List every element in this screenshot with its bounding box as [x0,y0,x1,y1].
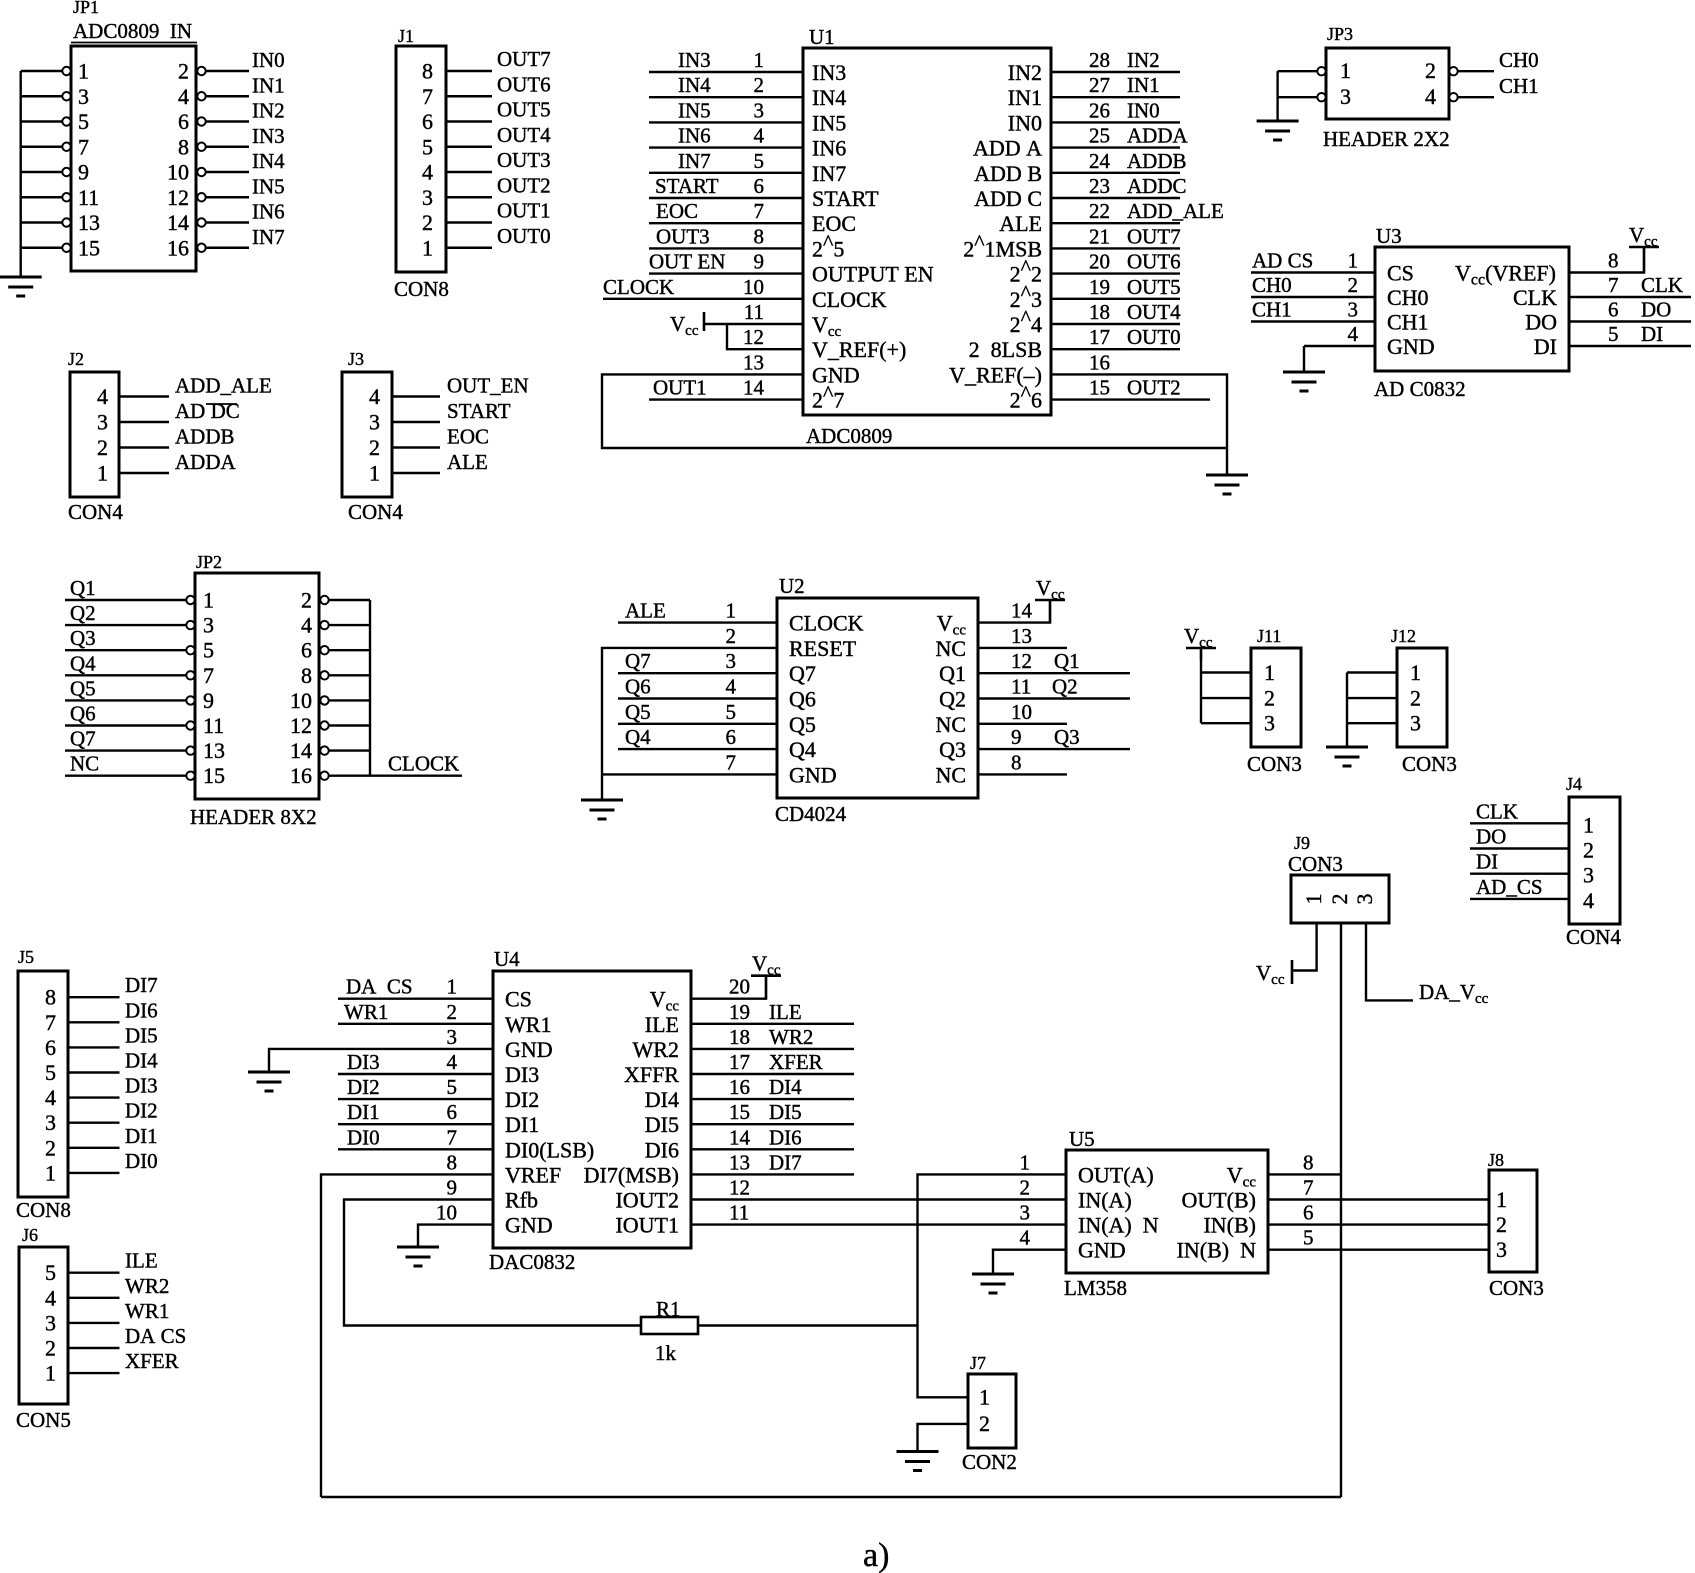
svg-text:IN(B) N: IN(B) N [1177,1238,1257,1263]
svg-text:2: 2 [45,1135,56,1160]
svg-text:NC: NC [935,762,966,787]
wire U2 pin 7 GND [602,773,777,775]
svg-text:7: 7 [1303,1176,1314,1200]
svg-text:J6: J6 [22,1225,38,1245]
svg-text:Q6: Q6 [789,687,816,712]
svg-text:Vcc: Vcc [1227,1162,1257,1190]
svg-text:7: 7 [447,1125,458,1149]
svg-text:2: 2 [178,59,189,84]
svg-text:Q1: Q1 [1054,649,1080,673]
ground U1 V_REF(-) [1206,475,1248,494]
wire U4 pin 6 (DI1) [338,1123,493,1125]
wire U1 pin 4 [649,146,803,148]
svg-text:2: 2 [369,435,380,460]
svg-text:2: 2 [1327,894,1352,905]
svg-text:IN6: IN6 [252,200,285,224]
svg-text:OUT_EN: OUT_EN [447,374,529,398]
svg-text:CON3: CON3 [1489,1276,1544,1300]
svg-text:1: 1 [45,1361,56,1386]
svg-text:Q3: Q3 [70,626,96,650]
svg-text:Rfb: Rfb [505,1188,538,1213]
svg-text:1: 1 [754,48,765,72]
svg-text:9: 9 [203,688,214,713]
JP3 pin circles [1317,67,1457,101]
connector JP1 body (HEADER 8X2) [71,46,196,271]
svg-text:ADC0809 IN: ADC0809 IN [73,19,192,43]
svg-text:7: 7 [726,750,737,774]
wire U4 pin 9 Rfb to R1 [344,1200,641,1326]
svg-text:IN4: IN4 [812,85,846,110]
svg-text:U2: U2 [779,574,805,598]
ground U4 pin 3 [248,1072,290,1091]
svg-text:XFER: XFER [125,1349,179,1373]
ground J7 [897,1452,939,1471]
svg-text:ADD C: ADD C [974,186,1042,211]
svg-text:IOUT1: IOUT1 [615,1213,679,1238]
wire U1 pin 18 [1051,323,1180,325]
svg-text:Q4: Q4 [789,737,816,762]
svg-text:18: 18 [1089,300,1110,324]
svg-text:17: 17 [1089,325,1110,349]
svg-text:J8: J8 [1488,1150,1504,1170]
svg-text:27: 27 [1089,73,1110,97]
wire U4 pin 14 (DI6) [691,1148,854,1150]
svg-text:OUT EN: OUT EN [649,250,725,274]
svg-text:3: 3 [1020,1201,1031,1225]
ground JP3 [1257,121,1299,140]
svg-text:2: 2 [979,1411,990,1436]
svg-text:AD CS: AD CS [1252,249,1313,273]
svg-text:J2: J2 [68,349,84,369]
svg-text:8: 8 [447,1150,458,1174]
wire U2 pin 12 (Q1) [978,672,1130,674]
svg-text:DI0: DI0 [347,1125,380,1149]
svg-text:ADDB: ADDB [175,425,235,449]
wire JP1 pin 10 (IN4) [206,171,249,173]
U1 right pin names [949,60,1042,413]
wire J1 pin 8 (OUT7) [446,70,492,72]
wire J5 pin 7 (DI6) [68,1021,120,1023]
IC U1 body (ADC0809) [803,48,1051,415]
wire U4 pin 12 IOUT2 to U5 pin 2 [691,1198,1066,1200]
svg-text:1: 1 [979,1385,990,1410]
svg-text:CH1: CH1 [1499,74,1539,98]
U3 right pin names [1455,261,1557,360]
svg-text:18: 18 [729,1025,750,1049]
connector J6 body (CON5) [19,1247,68,1404]
U4 right pin names [584,987,680,1238]
svg-text:10: 10 [743,275,764,299]
svg-text:3: 3 [1264,711,1275,736]
wire J5 pin 3 (DI2) [68,1121,120,1123]
svg-text:3: 3 [422,185,433,210]
svg-text:17: 17 [729,1050,750,1074]
svg-text:CS: CS [1387,261,1414,286]
svg-text:IN3: IN3 [252,124,285,148]
wire U3 pin 8 Vcc [1569,247,1644,273]
svg-text:ADDA: ADDA [175,450,236,474]
svg-text:Q7: Q7 [625,649,651,673]
svg-text:CLOCK: CLOCK [388,752,459,776]
svg-text:AD C0832: AD C0832 [1374,377,1466,401]
svg-text:4: 4 [422,160,433,185]
svg-text:7: 7 [203,663,214,688]
svg-text:ALE: ALE [447,450,488,474]
wire U1 pin 20 [1051,272,1180,274]
svg-text:J11: J11 [1257,626,1281,646]
connector J1 body (CON8) [396,46,446,272]
svg-text:6: 6 [422,109,433,134]
svg-text:WR1: WR1 [125,1299,169,1323]
svg-text:1: 1 [447,975,458,999]
svg-text:Q7: Q7 [789,661,816,686]
svg-text:6: 6 [178,109,189,134]
wire U1 pin 16 V_REF(-) to ground rail [1051,374,1227,475]
svg-text:NC: NC [935,712,966,737]
wire U1 pin 9 [649,272,803,274]
svg-text:CLOCK: CLOCK [603,275,674,299]
svg-text:1: 1 [78,59,89,84]
svg-text:DI0: DI0 [125,1149,158,1173]
svg-text:OUT4: OUT4 [497,123,551,147]
svg-text:CH1: CH1 [1387,310,1429,335]
IC U2 body (CD4024) [777,598,978,798]
svg-text:2: 2 [726,624,737,648]
wire U3 pin 2 (CH0) [1251,296,1375,298]
svg-text:DI1: DI1 [125,1124,158,1148]
wire U4 pin 4 (DI3) [338,1073,493,1075]
wire J6 pin 3 (WR1) [68,1322,120,1324]
svg-text:Q6: Q6 [625,675,651,699]
wire U4 pin 13 (DI7) [691,1173,854,1175]
svg-text:4: 4 [1348,322,1359,346]
wire U1 pin 21 [1051,247,1180,249]
svg-text:CLK: CLK [1476,799,1518,823]
svg-text:a): a) [863,1537,889,1573]
wire U2 pin 11 (Q2) [978,697,1130,699]
svg-text:DA_Vcc: DA_Vcc [1419,980,1489,1007]
wire J1 pin 5 (OUT4) [446,146,492,148]
svg-text:Q2: Q2 [1052,675,1078,699]
svg-text:DI5: DI5 [769,1100,802,1124]
wire U1 pin 25 [1051,146,1180,148]
svg-text:IN5: IN5 [678,98,711,122]
svg-text:DI3: DI3 [125,1074,158,1098]
svg-text:VREF: VREF [505,1162,561,1187]
svg-text:19: 19 [1089,275,1110,299]
svg-text:7: 7 [1608,273,1619,297]
svg-text:14: 14 [743,376,765,400]
svg-text:CON4: CON4 [1566,925,1621,949]
wire U3 pin 7 (CLK) [1569,296,1691,298]
wire J1 pin 7 (OUT6) [446,95,492,97]
wire U4 pin 11 IOUT1 to U5 pin 3 [691,1223,1066,1225]
svg-text:AD_CS: AD_CS [1476,875,1543,899]
svg-text:12: 12 [743,325,764,349]
wire U4 pin 10 GND [418,1225,493,1247]
svg-text:3: 3 [78,84,89,109]
svg-text:12: 12 [1011,649,1032,673]
wire U2 pin 14 Vcc [978,600,1050,623]
connector J9 body (CON3 rotated) [1291,875,1389,923]
IC U3 body (ADC0832) [1375,247,1569,371]
svg-text:10: 10 [1011,700,1032,724]
svg-text:13: 13 [203,738,225,763]
svg-text:OUT0: OUT0 [1127,325,1181,349]
svg-text:3: 3 [1583,863,1594,888]
svg-text:7: 7 [754,199,765,223]
svg-text:OUT5: OUT5 [1127,275,1181,299]
svg-text:DI5: DI5 [125,1023,158,1047]
svg-text:DO: DO [1476,825,1506,849]
svg-text:Q4: Q4 [625,725,651,749]
wire U5 pin 8 Vcc to DA_Vcc rail [1268,1173,1341,1175]
wire JP3 pin 4 (CH1) [1458,96,1494,98]
svg-text:IN5: IN5 [252,174,285,198]
wire JP2 pin 11 (Q6) [65,724,186,726]
svg-text:IN1: IN1 [1008,85,1042,110]
svg-text:OUT6: OUT6 [497,72,551,96]
svg-text:CLK: CLK [1641,273,1683,297]
wire J9 pin 1 to Vcc [1293,923,1317,971]
svg-text:Vcc: Vcc [1256,961,1285,988]
svg-text:7: 7 [422,84,433,109]
svg-text:15: 15 [203,763,225,788]
svg-text:DI6: DI6 [125,998,158,1022]
U1 left pin numbers 1-14 [743,48,765,400]
wire U4 pin 1 (DA_CS) [338,998,493,1000]
wire J9 pin 2 down to bottom rail [1340,923,1342,1497]
svg-text:14: 14 [167,210,189,235]
wire J6 pin 4 (WR2) [68,1297,120,1299]
wire J3 pin 3 [392,421,440,423]
svg-text:20: 20 [729,975,750,999]
connector J3 body (CON4) [342,372,392,497]
node CH1 (U3 pin 3) [1252,298,1358,322]
svg-text:IN4: IN4 [252,149,285,173]
svg-text:OUT3: OUT3 [497,148,551,172]
svg-text:3: 3 [45,1310,56,1335]
svg-text:DA CS: DA CS [125,1324,186,1348]
node CH0 (U3 pin 2) [1252,273,1358,297]
wire U4 pin 15 (DI5) [691,1123,854,1125]
svg-text:Q5: Q5 [789,712,816,737]
svg-text:1: 1 [1410,660,1421,685]
wire U4 pin 3 GND [269,1049,493,1072]
svg-text:LM358: LM358 [1064,1276,1127,1300]
wire U3 pin 4 GND [1304,322,1375,372]
wire U4 pin 18 (WR2) [691,1048,854,1050]
connector J4 body (CON4) [1569,797,1620,924]
wire J5 pin 4 (DI3) [68,1096,120,1098]
connector J11 body (CON3) [1251,648,1301,747]
svg-text:Vcc: Vcc [1184,624,1213,651]
wire J1 pin 4 (OUT3) [446,171,492,173]
node DO (U3 pin 6) [1608,298,1671,322]
wire J11 pins 1-3 to Vcc [1201,648,1251,723]
connector J2 body (CON4) [70,372,119,497]
wire JP1 pin 14 (IN6) [206,221,249,223]
svg-text:GND: GND [812,362,860,387]
svg-text:2: 2 [301,588,312,613]
ground J12 [1326,747,1368,766]
svg-text:2: 2 [1264,686,1275,711]
svg-text:JP2: JP2 [196,552,222,572]
wire J9 pin 3 to DA_Vcc [1366,923,1413,1000]
svg-text:Vcc: Vcc [1629,223,1658,250]
wire J1 pin 6 (OUT5) [446,120,492,122]
svg-text:6: 6 [45,1035,56,1060]
svg-text:Q5: Q5 [625,700,651,724]
svg-text:8: 8 [1011,750,1022,774]
svg-text:Q2: Q2 [70,601,96,625]
svg-text:U5: U5 [1069,1127,1095,1151]
wire U1 pin 17 [1051,348,1180,350]
wire J7 pin 2 to ground [918,1424,969,1452]
svg-text:CH0: CH0 [1387,285,1429,310]
wire J4 pin 2 (DO) [1470,847,1569,849]
svg-text:3: 3 [1410,711,1421,736]
svg-text:IN2: IN2 [252,99,285,123]
ground U5 [972,1274,1014,1293]
svg-text:11: 11 [78,185,99,210]
wire U3 pin 3 (CH1) [1251,320,1375,322]
wire U1 pin 22 [1051,222,1180,224]
wire JP1 pin 4 (IN1) [206,95,249,97]
svg-text:11: 11 [744,300,764,324]
JP1 left pin circles [62,67,70,252]
ground U3 [1283,372,1325,391]
svg-text:OUT3: OUT3 [656,224,710,248]
svg-text:DI4: DI4 [125,1049,158,1073]
svg-text:8: 8 [301,663,312,688]
svg-text:15: 15 [729,1100,750,1124]
svg-text:10: 10 [290,688,312,713]
svg-text:OUT(B): OUT(B) [1181,1188,1256,1213]
svg-text:6: 6 [1303,1201,1314,1225]
svg-text:DI4: DI4 [769,1075,802,1099]
svg-text:DI3: DI3 [505,1062,539,1087]
wire J5 pin 1 (DI0) [68,1172,120,1174]
wire U1 pin 6 [649,197,803,199]
svg-text:Q1: Q1 [70,576,96,600]
wire U4 pin 7 (DI0) [338,1148,493,1150]
ground U4 pin 10 [397,1247,439,1266]
svg-text:CON4: CON4 [68,500,123,524]
svg-text:6: 6 [301,638,312,663]
wire JP1 left pins to ground bus [21,71,62,277]
svg-text:START: START [812,186,879,211]
svg-text:OUT6: OUT6 [1127,250,1181,274]
wire U1 pin 12 V_REF(+) jog from Vcc [727,324,803,349]
svg-text:4: 4 [45,1085,56,1110]
svg-text:IN(B): IN(B) [1203,1213,1256,1238]
U2 right pin numbers 14-8 [1011,599,1033,775]
svg-text:WR1: WR1 [344,1000,388,1024]
svg-text:5: 5 [447,1075,458,1099]
svg-text:Q4: Q4 [70,651,96,675]
resistor R1 [641,1317,918,1334]
svg-text:V_REF(+): V_REF(+) [812,337,906,362]
JP1 right pin circles [197,67,205,252]
wire U3 pin 5 (DI) [1569,345,1691,347]
wire JP2 pin 7 (Q4) [65,674,186,676]
svg-text:5: 5 [78,109,89,134]
wire U1 pin 8 [649,247,803,249]
svg-text:J12: J12 [1391,626,1416,646]
wire U2 pin 5 (Q5) [618,723,777,725]
svg-text:U4: U4 [494,947,520,971]
svg-text:12: 12 [290,713,312,738]
svg-text:16: 16 [290,763,312,788]
svg-text:2: 2 [1583,838,1594,863]
svg-text:R1: R1 [656,1297,681,1321]
svg-text:CH1: CH1 [1252,298,1292,322]
svg-text:5: 5 [1608,322,1619,346]
wire JP2 right pins bus to CLOCK [329,600,462,776]
svg-text:CON3: CON3 [1288,852,1343,876]
svg-text:DO: DO [1525,310,1557,335]
svg-text:ILE: ILE [645,1012,679,1037]
svg-text:IN7: IN7 [252,225,285,249]
svg-text:IOUT2: IOUT2 [615,1188,679,1213]
svg-text:ADDC: ADDC [1127,174,1187,198]
wire J12 pins 1-3 to ground [1347,673,1397,748]
svg-text:3: 3 [754,98,765,122]
wire U1 pin 13 GND to bottom rail [602,374,1227,448]
svg-text:2: 2 [1020,1176,1031,1200]
wire U5 pin 6 IN(B) to J8 pin 2 [1268,1223,1489,1225]
svg-text:J9: J9 [1294,833,1310,853]
wire U5 pin 5 IN(B)N to J8 pin 3 [1268,1248,1489,1250]
svg-text:1: 1 [726,599,737,623]
svg-text:8: 8 [1608,249,1619,273]
wire U5 pin 7 OUT(B) to J8 pin 1 [1268,1198,1489,1200]
svg-text:Q2: Q2 [939,687,966,712]
svg-text:3: 3 [1348,298,1359,322]
svg-text:OUT7: OUT7 [1127,224,1181,248]
svg-text:Vcc: Vcc [670,312,699,339]
wire U1 pin 7 [649,222,803,224]
svg-text:DI: DI [1476,850,1498,874]
wire U4 pin 8 VREF down to bottom rail [321,1174,493,1497]
wire U5 pin 1 OUT(A) from R1 node [918,1174,1067,1325]
svg-text:4: 4 [97,384,108,409]
svg-text:9: 9 [78,160,89,185]
svg-text:CD4024: CD4024 [775,802,847,826]
svg-text:ADDA: ADDA [1127,124,1188,148]
svg-text:26: 26 [1089,98,1110,122]
svg-text:IN(A) N: IN(A) N [1078,1213,1159,1238]
wire U1 pin 14 (OUT1) [649,398,803,400]
svg-text:7: 7 [78,134,89,159]
node CLK (U3 pin 7) [1608,273,1683,297]
connector JP3 body (HEADER 2X2) [1326,48,1449,119]
svg-text:1: 1 [1264,660,1275,685]
svg-text:DI5: DI5 [645,1112,679,1137]
wire J4 pin 3 (DI) [1470,873,1569,875]
ground U2 [581,800,623,819]
wire U1 pin 5 [649,172,803,174]
svg-text:IN7: IN7 [678,149,711,173]
wire JP2 pin 9 (Q5) [65,699,186,701]
svg-text:ILE: ILE [769,1000,802,1024]
svg-text:3: 3 [203,613,214,638]
wire U2 pin 10 (NC) [978,723,1067,725]
svg-text:IN0: IN0 [252,48,285,72]
svg-text:13: 13 [743,350,764,374]
svg-text:GND: GND [505,1213,553,1238]
